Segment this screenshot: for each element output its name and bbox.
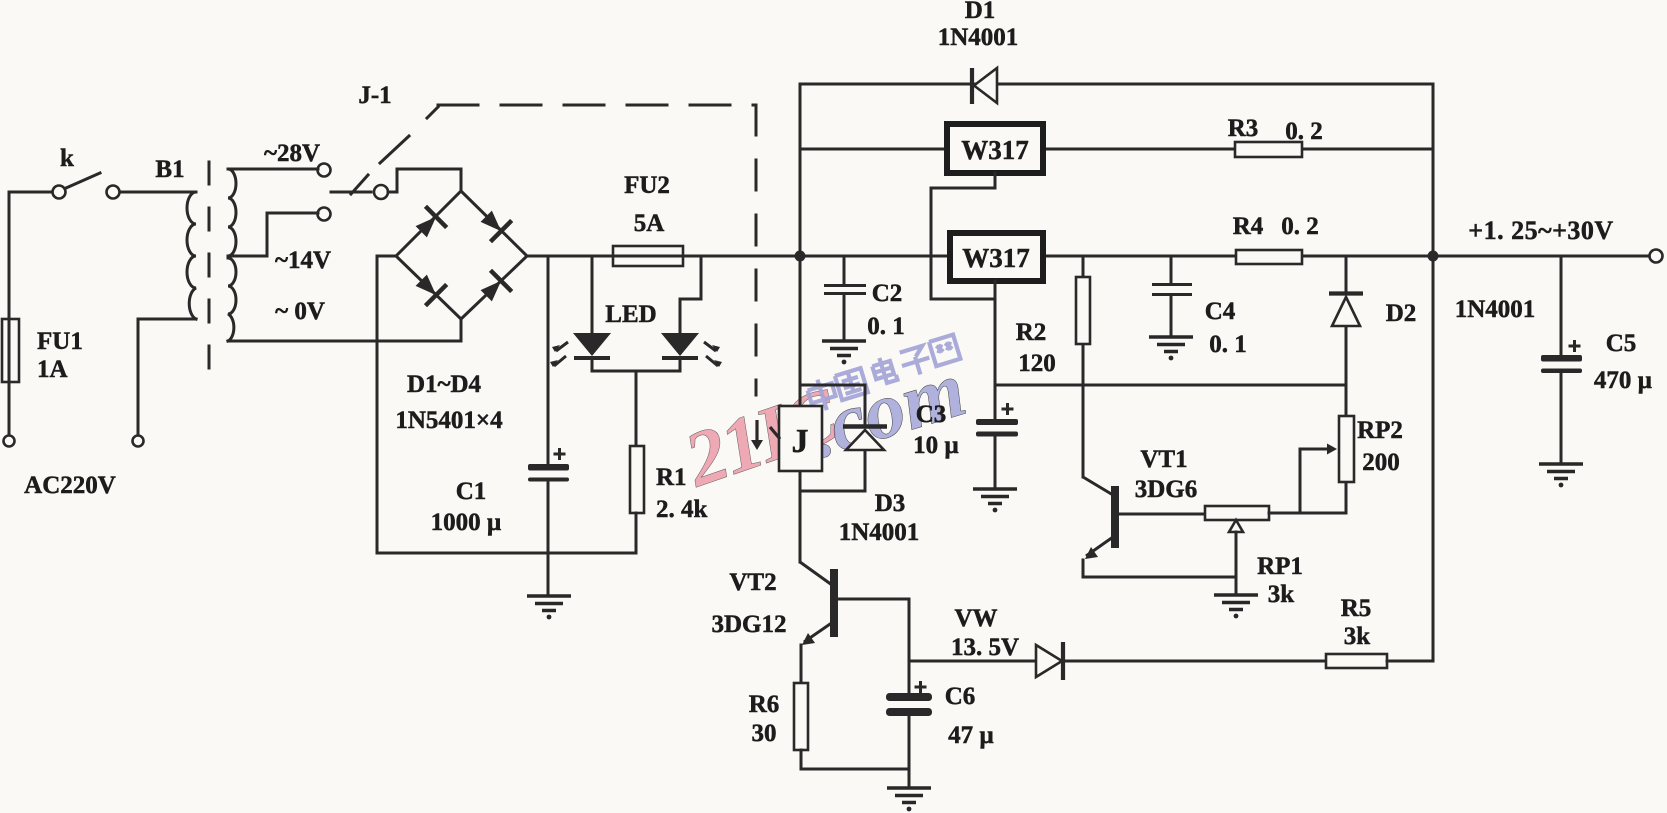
svg-text:C1: C1 — [456, 478, 487, 505]
regulator U2 W317 — [950, 233, 1043, 281]
svg-text:LED: LED — [605, 301, 656, 328]
ground under C2 — [822, 341, 866, 364]
svg-text:D1: D1 — [965, 0, 996, 24]
wire main left vertical — [799, 84, 802, 562]
svg-text:R3: R3 — [1228, 115, 1259, 142]
fuse FU1 — [2, 192, 83, 435]
relay link dashed line — [380, 105, 756, 395]
svg-text:C2: C2 — [872, 280, 903, 307]
svg-text:~28V: ~28V — [264, 140, 320, 167]
svg-text:1N4001: 1N4001 — [938, 24, 1019, 51]
wire emitter bottom — [801, 768, 909, 771]
svg-text:C6: C6 — [945, 683, 976, 710]
wire ADJ node line — [995, 384, 1346, 387]
wire VT1 emitter to RP1 wiper — [1083, 576, 1236, 579]
relay coil J — [779, 406, 822, 471]
svg-text:0. 2: 0. 2 — [1285, 118, 1323, 145]
potentiometer RP1 — [1205, 444, 1346, 609]
svg-text:FU1: FU1 — [37, 328, 83, 355]
svg-text:3DG6: 3DG6 — [1135, 476, 1198, 503]
transformer B1 secondary lower — [228, 258, 461, 341]
svg-text:D1~D4: D1~D4 — [407, 371, 482, 398]
watermark .com blue — [799, 345, 976, 475]
svg-text:R6: R6 — [749, 691, 780, 718]
capacitor C5 — [1541, 256, 1652, 464]
svg-text:VT1: VT1 — [1140, 446, 1187, 473]
svg-text:47 µ: 47 µ — [948, 722, 994, 749]
svg-text:1N5401×4: 1N5401×4 — [395, 407, 503, 434]
node ~28V terminal — [264, 140, 331, 177]
svg-text:0. 2: 0. 2 — [1281, 213, 1319, 240]
relay contact J-1 — [331, 82, 461, 199]
ground under C5 — [1539, 464, 1583, 487]
svg-text:5A: 5A — [634, 210, 665, 237]
transformer core — [208, 162, 211, 374]
wire regulator rail — [800, 148, 1433, 151]
svg-text:J-1: J-1 — [358, 82, 391, 109]
capacitor C2 — [824, 256, 905, 341]
svg-text:+1. 25~+30V: +1. 25~+30V — [1468, 216, 1613, 245]
output terminal — [1468, 216, 1662, 263]
svg-text:10 µ: 10 µ — [913, 432, 959, 459]
relay action arrow — [751, 420, 780, 450]
resistor R3 — [1228, 115, 1323, 157]
svg-text:B1: B1 — [155, 156, 184, 183]
svg-text:13. 5V: 13. 5V — [951, 634, 1019, 661]
wire U1 ADJ to U2 ADJ — [931, 173, 995, 299]
capacitor C1 — [431, 256, 569, 553]
svg-text:R1: R1 — [656, 464, 687, 491]
transistor VT1 — [1083, 385, 1205, 577]
svg-text:J: J — [792, 423, 809, 460]
transistor VT2 — [712, 562, 910, 683]
svg-text:0. 1: 0. 1 — [867, 313, 905, 340]
watermark 21IC pink — [673, 370, 849, 503]
resistor R2 — [1016, 256, 1090, 385]
AC220V source terminals — [4, 319, 197, 499]
wire negative rail bottom — [377, 552, 636, 555]
svg-text:RP1: RP1 — [1257, 553, 1303, 580]
bridge rectifier D1~D4 — [395, 191, 527, 434]
svg-text:~14V: ~14V — [275, 247, 331, 274]
ground under C6 — [887, 769, 931, 811]
LED indicator pair — [550, 256, 722, 446]
capacitor C6 — [886, 599, 994, 769]
svg-text:30: 30 — [752, 720, 777, 747]
svg-text:470 µ: 470 µ — [1594, 367, 1652, 394]
svg-text:2. 4k: 2. 4k — [656, 496, 708, 523]
ground under C1 — [547, 553, 550, 595]
svg-text:R4: R4 — [1233, 213, 1264, 240]
svg-text:FU2: FU2 — [624, 172, 670, 199]
diode D1 — [938, 0, 1019, 104]
wire VW line — [909, 660, 1326, 663]
svg-text:R2: R2 — [1016, 319, 1047, 346]
node ~14V terminal — [275, 208, 331, 275]
capacitor C3 — [913, 281, 1018, 489]
wire right vertical — [1432, 84, 1435, 661]
ground under RP1 — [1214, 595, 1258, 618]
diode D3 — [800, 385, 919, 546]
svg-text:3k: 3k — [1268, 581, 1295, 608]
resistor R1 — [630, 446, 708, 553]
svg-text:3k: 3k — [1344, 623, 1371, 650]
main positive rail — [527, 255, 1655, 258]
ground under C4 — [1149, 337, 1193, 360]
wire top bypass rail — [800, 83, 1433, 86]
svg-text:VT2: VT2 — [729, 569, 776, 596]
svg-text:1N4001: 1N4001 — [839, 519, 920, 546]
svg-text:1N4001: 1N4001 — [1455, 296, 1536, 323]
junction node output rail — [1428, 251, 1439, 262]
svg-text:~ 0V: ~ 0V — [275, 298, 325, 325]
svg-text:120: 120 — [1018, 350, 1056, 377]
svg-text:0. 1: 0. 1 — [1209, 331, 1247, 358]
zener diode VW — [951, 605, 1063, 680]
regulator U1 W317 — [947, 124, 1043, 173]
svg-text:k: k — [60, 145, 74, 172]
ground under C3 — [973, 489, 1017, 512]
resistor R5 — [1326, 595, 1433, 668]
svg-text:1000 µ: 1000 µ — [431, 509, 502, 536]
watermark chinese characters blue — [804, 335, 963, 414]
wire bridge left to negative rail — [377, 256, 396, 553]
svg-text:VW: VW — [954, 605, 997, 632]
junction node input rail — [795, 251, 806, 262]
potentiometer RP2 — [1339, 385, 1403, 513]
svg-text:C3: C3 — [916, 401, 947, 428]
capacitor C4 — [1152, 256, 1247, 358]
svg-text:AC220V: AC220V — [24, 472, 116, 499]
svg-text:1A: 1A — [37, 356, 68, 383]
resistor R6 — [749, 683, 808, 769]
fuse FU2 — [613, 172, 683, 266]
svg-text:D2: D2 — [1386, 300, 1417, 327]
svg-text:C5: C5 — [1606, 330, 1637, 357]
svg-text:W317: W317 — [962, 243, 1030, 273]
switch k — [9, 145, 196, 199]
transformer B1 primary — [155, 156, 196, 319]
svg-text:C4: C4 — [1205, 298, 1236, 325]
svg-text:W317: W317 — [961, 135, 1029, 165]
svg-text:R5: R5 — [1341, 595, 1372, 622]
svg-text:200: 200 — [1362, 449, 1400, 476]
resistor R4 — [1233, 213, 1319, 264]
transformer B1 secondary upper — [228, 169, 318, 256]
svg-text:3DG12: 3DG12 — [712, 611, 787, 638]
svg-text:RP2: RP2 — [1357, 417, 1403, 444]
svg-text:D3: D3 — [875, 490, 906, 517]
diode D2 — [1329, 256, 1416, 385]
